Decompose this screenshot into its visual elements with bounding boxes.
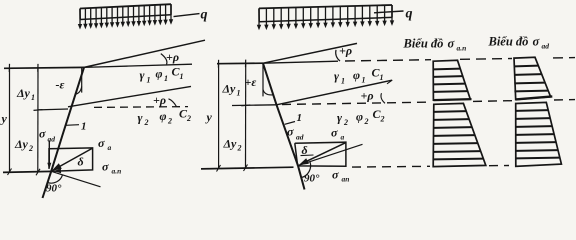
- svg-text:q: q: [406, 7, 413, 22]
- svg-text:90°: 90°: [46, 183, 62, 195]
- sigma_a resultant arrow (left): [58, 148, 93, 167]
- svg-text:a: a: [108, 143, 112, 152]
- tick bottom of y line (right): [217, 165, 221, 172]
- distributed load q (right): [257, 5, 394, 30]
- sigma_a resultant arrow (right): [306, 143, 346, 162]
- svg-text:γ: γ: [337, 111, 342, 125]
- normal to wall through stress point (left): [51, 171, 100, 187]
- sigma_ad arrow along wall (left): [48, 141, 50, 164]
- svg-text:1: 1: [237, 89, 241, 98]
- svg-text:σ: σ: [98, 136, 105, 150]
- svg-text:2: 2: [167, 117, 172, 126]
- arc of angle +epsilon (right): [263, 90, 273, 95]
- dimension tick top of y line (left): [8, 64, 10, 72]
- label q (left) with leader: [174, 14, 200, 17]
- horizontal stub dim line to wall at interface (right): [232, 104, 277, 107]
- leader line and label 1 (right wall): [285, 122, 295, 125]
- svg-text:σ: σ: [102, 160, 109, 174]
- svg-text:2: 2: [144, 118, 149, 127]
- arc of angle +rho (left): [161, 54, 167, 65]
- svg-text:a: a: [341, 133, 345, 142]
- svg-text:y: y: [0, 112, 8, 126]
- svg-text:1: 1: [164, 74, 168, 83]
- svg-text:Δy: Δy: [223, 137, 238, 151]
- svg-text:ad: ad: [48, 135, 56, 144]
- tick bottom of y line (left): [8, 169, 12, 176]
- svg-text:σ: σ: [39, 127, 46, 141]
- vertical reference for +epsilon (right): [262, 63, 264, 96]
- layer interface sloped line (right): [277, 80, 393, 105]
- svg-text:σ: σ: [331, 126, 338, 140]
- base line at wall foot (left): [3, 171, 52, 172]
- normal to wall through stress point (right): [298, 144, 363, 165]
- svg-text:1: 1: [31, 93, 35, 102]
- svg-text:2: 2: [380, 115, 385, 124]
- svg-text:an: an: [342, 175, 350, 184]
- dimension line dY (right): [245, 63, 247, 168]
- svg-text:1: 1: [297, 112, 303, 124]
- arc of angle +rho (right upper): [336, 50, 340, 61]
- svg-text:y: y: [205, 110, 213, 124]
- chart 1 lower trapezoid with hatching: [433, 103, 486, 166]
- svg-text:1: 1: [362, 76, 366, 85]
- ground line at wall top (left): [4, 66, 84, 69]
- svg-text:φ: φ: [356, 110, 363, 124]
- stress rectangle (right): [295, 142, 346, 166]
- tick bottom of dY line (left): [36, 169, 40, 176]
- svg-text:φ: φ: [353, 68, 360, 82]
- svg-text:1: 1: [180, 72, 184, 81]
- base line at wall foot (right): [201, 167, 294, 169]
- leader line and label 1 (left wall): [66, 124, 80, 127]
- distributed load q (left): [78, 4, 173, 29]
- ground line at wall top (right): [217, 62, 263, 65]
- svg-text:+ρ: +ρ: [361, 89, 374, 103]
- svg-text:q: q: [201, 8, 208, 23]
- sigma_a.n arrow head (left): [54, 169, 62, 174]
- svg-text:γ: γ: [140, 68, 145, 82]
- svg-text:Δy: Δy: [14, 137, 29, 151]
- svg-text:+ε: +ε: [245, 75, 257, 89]
- dimension line y (left): [9, 68, 11, 172]
- chart 1 upper trapezoid with hatching: [433, 60, 471, 100]
- svg-text:δ: δ: [78, 155, 84, 169]
- svg-text:γ: γ: [334, 69, 339, 83]
- arc of angle -epsilon (left): [75, 87, 82, 95]
- layer interface sloped line (left): [68, 86, 191, 106]
- tick top of dY line (right): [245, 60, 247, 68]
- svg-text:Δy: Δy: [222, 82, 237, 96]
- label q (right) with leader: [374, 11, 404, 13]
- svg-text:σ: σ: [287, 125, 294, 139]
- tick at interface level on dY line (right): [241, 104, 250, 107]
- svg-text:2: 2: [364, 117, 369, 126]
- svg-text:a.n: a.n: [457, 44, 467, 53]
- arc 90 degrees (left): [47, 175, 62, 183]
- sloping ground surface +rho (left): [84, 40, 205, 67]
- svg-text:2: 2: [28, 144, 33, 153]
- dashed horizontal at base toward charts: [352, 165, 430, 168]
- chart 2 lower trapezoid with hatching: [516, 102, 562, 166]
- svg-text:1: 1: [380, 73, 384, 82]
- horizontal stub dim line to wall at interface (left): [38, 108, 68, 111]
- dimension line y (right): [218, 64, 220, 169]
- svg-text:φ: φ: [156, 67, 163, 81]
- svg-text:90°: 90°: [304, 173, 320, 185]
- tick at interface level on dY line (left): [34, 109, 43, 112]
- svg-text:-ε: -ε: [56, 78, 65, 92]
- svg-text:+ρ: +ρ: [339, 44, 352, 58]
- vertical reference for -epsilon (left): [81, 68, 83, 93]
- horizontal reference ray for +rho (left): [84, 64, 192, 67]
- dashed horizontal at interface (left): [94, 106, 188, 109]
- svg-text:1: 1: [81, 121, 87, 133]
- svg-text:ad: ad: [542, 42, 550, 51]
- svg-text:a.n: a.n: [112, 167, 122, 176]
- sloping ground surface +rho (right): [263, 43, 357, 63]
- dimension line dY (left): [37, 68, 39, 172]
- svg-text:1: 1: [341, 77, 345, 86]
- horizontal reference ray for +rho (right): [263, 61, 338, 63]
- svg-text:1: 1: [147, 76, 151, 85]
- svg-text:Biểu đồ: Biểu đồ: [488, 35, 529, 49]
- svg-text:ad: ad: [296, 133, 304, 142]
- stress rectangle (left): [49, 148, 93, 171]
- arc 90 degrees (right): [301, 162, 310, 178]
- small hook at end of interface line (right): [387, 80, 392, 84]
- svg-text:γ: γ: [138, 111, 143, 125]
- tick bottom of dY line (right): [244, 165, 248, 172]
- svg-text:σ: σ: [332, 168, 339, 182]
- tick top of y line (right): [217, 60, 219, 68]
- arc of angle +rho (right lower): [381, 93, 385, 103]
- svg-text:Δy: Δy: [16, 86, 31, 100]
- dimension tick top of dY line (left): [37, 64, 39, 72]
- svg-text:+ρ: +ρ: [166, 50, 179, 64]
- svg-text:2: 2: [237, 144, 242, 153]
- svg-text:Biểu đồ: Biểu đồ: [403, 37, 444, 51]
- svg-text:2: 2: [186, 114, 191, 123]
- dashed horizontal at interface toward charts (right): [282, 102, 430, 104]
- svg-text:2: 2: [343, 118, 348, 127]
- dashed horizontal at top toward charts: [345, 60, 431, 61]
- svg-text:+ρ: +ρ: [153, 93, 166, 107]
- retaining wall line (right), tilt +epsilon: [263, 63, 305, 189]
- chart 2 upper trapezoid with hatching: [514, 57, 552, 99]
- svg-text:φ: φ: [160, 109, 167, 123]
- retaining wall line (left), tilt -epsilon: [43, 67, 85, 198]
- arc of angle +rho (left, lower): [169, 99, 177, 107]
